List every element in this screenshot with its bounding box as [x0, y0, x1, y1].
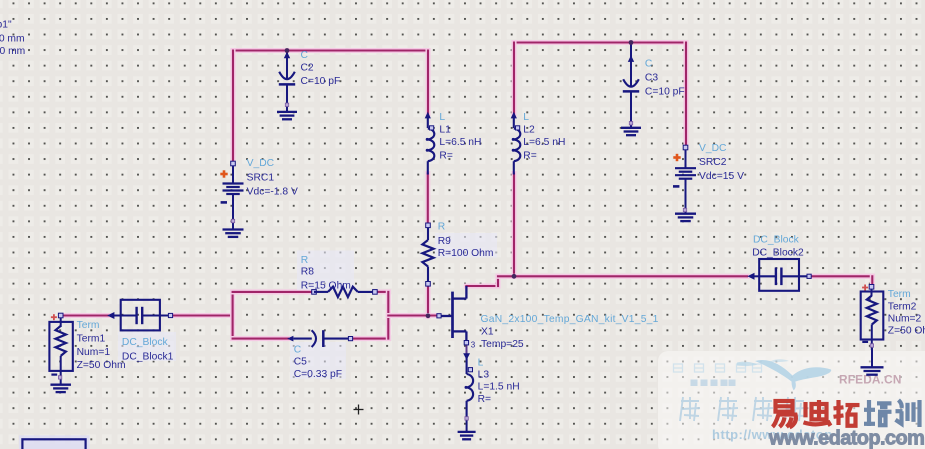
svg-text:V_DC: V_DC	[699, 143, 727, 154]
svg-text:b1": b1"	[0, 20, 12, 31]
svg-text:www.edatop.com: www.edatop.com	[768, 428, 924, 449]
label L2	[523, 112, 565, 161]
label R9	[438, 221, 494, 259]
svg-text:C=10 pF: C=10 pF	[301, 76, 341, 87]
wire RC cell top edge left	[233, 289, 313, 294]
selection highlight C5 label	[290, 342, 346, 379]
svg-text:C: C	[301, 50, 309, 61]
label L3	[478, 357, 520, 404]
wire L1 to R9	[425, 174, 430, 226]
wire corner down to Term2	[870, 276, 875, 286]
label SRC2	[699, 143, 744, 182]
svg-text:Num=2: Num=2	[888, 313, 922, 324]
svg-text:L1: L1	[439, 125, 451, 136]
ground for SRC2	[675, 214, 696, 221]
ground for Term2	[861, 367, 884, 374]
svg-text:L: L	[439, 112, 445, 123]
watermark big chinese "wei bo fang zhen"	[680, 397, 805, 421]
ground for L3	[458, 421, 476, 439]
terminal Term1	[49, 313, 72, 384]
svg-text:DC_Block2: DC_Block2	[752, 247, 804, 258]
resistor R9	[422, 223, 433, 286]
capacitor C3	[623, 43, 639, 128]
node junction L2/drain bus	[512, 274, 517, 279]
wire DC_Block2 to corner	[810, 274, 873, 279]
svg-text:L=1.5 nH: L=1.5 nH	[478, 382, 520, 393]
svg-text:L=6.5 nH: L=6.5 nH	[523, 137, 565, 148]
ground for C2	[277, 112, 297, 119]
svg-text:Z=50 Ohm: Z=50 Ohm	[888, 325, 925, 336]
svg-text:R8: R8	[301, 267, 314, 278]
wire top-right horizontal net VD	[514, 40, 686, 45]
svg-text:C: C	[294, 344, 302, 355]
capacitor C2	[279, 51, 295, 112]
svg-text:R=100 Ohm: R=100 Ohm	[438, 248, 494, 259]
dc block DC_Block2	[747, 259, 811, 291]
watermark small chinese row1	[674, 364, 762, 372]
svg-text:C=10 pF: C=10 pF	[645, 87, 685, 98]
wire DC_Block1 to RC cell	[171, 313, 233, 318]
svg-text:Vdc=-1.8 V: Vdc=-1.8 V	[247, 186, 298, 197]
ground for C3	[621, 128, 641, 135]
svg-text:DC_Block: DC_Block	[753, 234, 800, 245]
wire down to SRC2	[683, 43, 688, 148]
svg-text:R=: R=	[439, 150, 452, 161]
wire down to L2	[511, 43, 516, 115]
svg-text:C5: C5	[294, 356, 307, 367]
inductor L1	[425, 112, 435, 175]
dc source SRC2	[673, 145, 696, 213]
resistor R8	[312, 287, 378, 297]
selection highlight R9 label	[435, 233, 497, 258]
svg-text:Term: Term	[888, 289, 911, 300]
wire down to L1	[425, 51, 430, 115]
svg-text:0 mm: 0 mm	[0, 33, 25, 44]
svg-text:Term1: Term1	[77, 333, 106, 344]
label DC_Block1	[122, 337, 174, 363]
svg-text:Temp=25: Temp=25	[481, 339, 524, 350]
svg-text:C: C	[645, 59, 653, 70]
label Term1	[77, 320, 126, 371]
dc source SRC1	[220, 161, 243, 229]
wire X1 source to L3	[466, 345, 468, 354]
node junction C3 tap	[629, 40, 634, 45]
svg-text:Num=1: Num=1	[77, 347, 111, 358]
watermark red chinese "yi di tuo" + blue "pei xun"	[773, 400, 920, 427]
svg-text:L3: L3	[478, 370, 490, 381]
wire Term1 to DC_Block1	[61, 313, 108, 318]
label X1	[481, 314, 659, 350]
svg-text:GaN_2x100_Temp_GAN_kit_V1_5_1: GaN_2x100_Temp_GAN_kit_V1_5_1	[481, 314, 659, 325]
svg-text:L: L	[523, 112, 529, 123]
svg-text:C3: C3	[645, 73, 658, 84]
ground for SRC1	[223, 230, 244, 237]
label DC_Block2	[752, 234, 804, 258]
wire top-left horizontal net VG	[233, 48, 428, 53]
label SRC1	[247, 158, 298, 197]
inductor L3	[463, 353, 473, 421]
dc block DC_Block1	[107, 300, 172, 331]
svg-text:3: 3	[471, 340, 476, 349]
svg-text:SRC1: SRC1	[247, 173, 275, 184]
wire L2 to drain bus	[511, 174, 516, 277]
label C5	[294, 344, 342, 380]
wire RC cell to gate	[388, 313, 436, 318]
ground for Term1	[50, 385, 70, 392]
svg-text:R: R	[301, 255, 308, 266]
partial selected rectangle bottom-left	[19, 435, 90, 449]
svg-text:DC_Block1: DC_Block1	[122, 351, 174, 362]
svg-text:DC_Block: DC_Block	[122, 337, 169, 348]
label Term2	[888, 289, 925, 336]
wire RC cell left edge	[230, 292, 235, 339]
terminal Term2	[861, 285, 884, 368]
wire drain step horizontal	[466, 283, 498, 288]
wire drain bus to DC_Block2	[498, 274, 747, 279]
svg-text:L=6.5 nH: L=6.5 nH	[439, 137, 481, 148]
svg-text:C=0.33 pF: C=0.33 pF	[294, 369, 342, 380]
svg-text:Vdc=15 V: Vdc=15 V	[699, 171, 744, 182]
svg-text:X1: X1	[481, 326, 494, 337]
svg-text:V_DC: V_DC	[247, 158, 275, 169]
svg-text:C2: C2	[301, 63, 314, 74]
wire RC cell top edge right	[375, 289, 388, 294]
svg-text:L2: L2	[523, 125, 535, 136]
watermark small row2 marks	[691, 380, 736, 387]
selection highlight R8 label	[297, 251, 354, 291]
label R8	[301, 255, 351, 292]
svg-text:R=: R=	[523, 150, 536, 161]
svg-text:Term: Term	[77, 320, 100, 331]
cursor cross marker	[354, 405, 364, 415]
svg-text:R=15 Ohm: R=15 Ohm	[301, 281, 351, 292]
svg-text:R: R	[438, 221, 445, 232]
label C3	[645, 59, 685, 98]
wire R9 to gate junction	[425, 284, 430, 317]
transistor X1 (GaN FET)	[437, 286, 469, 345]
inductor L2	[511, 112, 521, 175]
svg-text:0 mm: 0 mm	[0, 46, 25, 57]
wire RC cell bottom edge left	[233, 336, 288, 341]
svg-text:R9: R9	[438, 236, 451, 247]
watermark pale panel	[658, 351, 925, 449]
label L1	[439, 112, 481, 161]
capacitor C5	[287, 330, 352, 347]
node junction C2 tap	[285, 48, 290, 53]
wire left vertical to SRC1	[230, 51, 235, 164]
label C2	[301, 50, 341, 87]
svg-text:Term2: Term2	[888, 301, 917, 312]
svg-text:SRC2: SRC2	[699, 157, 727, 168]
svg-text:Z=50 Ohm: Z=50 Ohm	[77, 360, 126, 371]
svg-text:L: L	[478, 357, 484, 368]
wire RC cell right edge	[386, 292, 391, 339]
node junction R9/gate	[426, 313, 431, 318]
watermark bird logo	[737, 359, 831, 390]
wire RC cell bottom edge right	[352, 336, 388, 341]
wire drain step vertical	[495, 276, 500, 286]
svg-text:R=: R=	[478, 394, 491, 405]
selection highlight DC_Block1 label	[118, 332, 176, 361]
msub partial text top-left	[0, 20, 25, 57]
